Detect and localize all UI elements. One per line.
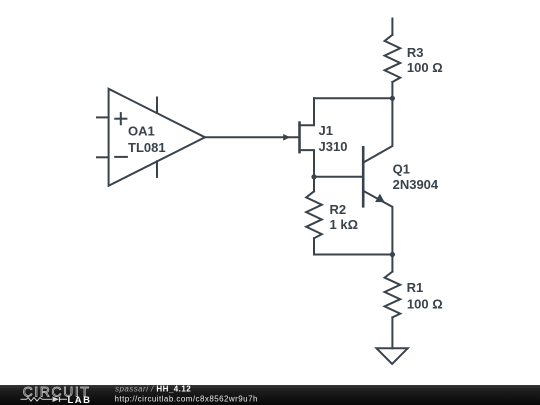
node junction left xyxy=(311,174,316,179)
footer bar xyxy=(0,385,540,405)
svg-text:100 Ω: 100 Ω xyxy=(407,60,443,75)
svg-text:spassari / HH_4.12: spassari / HH_4.12 xyxy=(115,385,191,394)
logo resistor zigzag xyxy=(27,398,43,402)
JFET J1 source lead xyxy=(301,150,314,177)
resistor R3 lead bottom xyxy=(391,82,393,98)
svg-text:1 kΩ: 1 kΩ xyxy=(330,217,359,232)
op-amp plus sign xyxy=(115,113,126,124)
svg-text:J1: J1 xyxy=(319,123,333,138)
op-amp non-inverting input wire xyxy=(97,116,109,118)
svg-text:OA1: OA1 xyxy=(128,124,155,139)
resistor R2 lead top xyxy=(313,177,315,192)
wire top rail J1 drain to node xyxy=(314,97,392,99)
svg-text:100 Ω: 100 Ω xyxy=(407,296,443,311)
op-amp positive supply stub xyxy=(156,98,158,113)
svg-text:LAB: LAB xyxy=(68,395,92,405)
logo wire left xyxy=(21,398,27,400)
transistor Q1 emitter xyxy=(365,192,393,255)
wire bottom rail R2 to node xyxy=(314,254,392,256)
arrowhead on Q1 emitter xyxy=(375,194,385,203)
logo diode triangle xyxy=(53,397,60,402)
logo wire right xyxy=(60,398,67,400)
transistor Q1 base bar xyxy=(362,147,365,206)
svg-text:2N3904: 2N3904 xyxy=(393,177,439,192)
wire op-amp output to J1 gate xyxy=(205,136,298,138)
resistor R2 lead bottom xyxy=(313,238,315,254)
arrowhead on op-amp output wire xyxy=(283,134,290,141)
logo wire mid xyxy=(42,398,52,400)
node junction bottom xyxy=(390,252,395,257)
resistor R3 body xyxy=(385,35,401,82)
JFET J1 drain lead xyxy=(301,98,314,125)
node junction top xyxy=(390,96,395,101)
svg-text:R2: R2 xyxy=(330,202,347,217)
op-amp minus sign xyxy=(115,156,127,158)
svg-text:J310: J310 xyxy=(319,139,348,154)
svg-text:R1: R1 xyxy=(407,280,424,295)
op-amp U1 triangle xyxy=(109,89,205,186)
svg-text:http://circuitlab.com/c8x8562w: http://circuitlab.com/c8x8562wr9u7h xyxy=(115,394,258,403)
resistor R2 body xyxy=(306,191,322,238)
svg-text:R3: R3 xyxy=(407,45,424,60)
op-amp inverting input wire xyxy=(97,156,109,158)
svg-text:TL081: TL081 xyxy=(128,140,166,155)
resistor R1 body xyxy=(385,272,401,318)
resistor R3 lead top xyxy=(391,19,393,35)
transistor Q1 collector xyxy=(365,98,393,162)
wire Q1 base to node xyxy=(314,176,363,178)
resistor R1 lead bottom xyxy=(391,317,393,348)
JFET J1 gate bar xyxy=(298,123,301,153)
logo diode cathode bar xyxy=(59,397,61,402)
op-amp negative supply stub xyxy=(156,161,158,177)
resistor R1 lead top xyxy=(391,255,393,272)
ground symbol xyxy=(377,348,408,364)
svg-text:Q1: Q1 xyxy=(393,162,410,177)
